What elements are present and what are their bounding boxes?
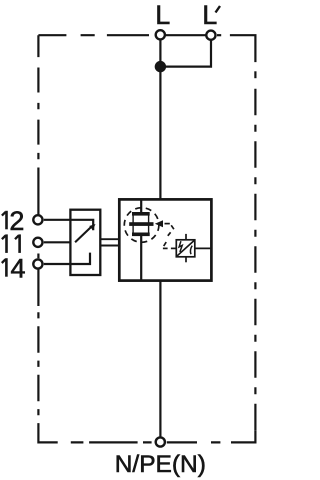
trigger unit box bottom lead <box>185 257 187 263</box>
changeover contact box K1 <box>70 210 100 275</box>
terminal 11 <box>33 238 42 247</box>
wire: L terminal down to junction <box>159 40 161 199</box>
trigger dashed connection dash 1 <box>165 223 170 225</box>
trigger unit lightning bolt <box>179 241 182 252</box>
device outline dash-dot border: dot above terminal 14 <box>37 254 39 259</box>
device outline dash-dot border: right side <box>254 89 256 431</box>
trigger dashed connection dash 5 <box>163 247 168 249</box>
terminal N/PE(N) <box>156 437 165 446</box>
label 14 digit 1 <box>2 258 8 277</box>
wire: L to L' top link <box>160 34 211 36</box>
svg-text:L: L <box>155 0 170 30</box>
junction node: L/L' common point <box>155 61 166 72</box>
device outline dash-dot border: top-right corner dash <box>230 35 256 62</box>
spark gap bottom electrode <box>132 233 150 237</box>
mechanical linkage lower line <box>101 245 119 247</box>
device outline dash-dot border: bottom side right of N/PE <box>167 441 221 443</box>
label 11 digit 1 second <box>15 234 21 253</box>
svg-text:2: 2 <box>9 206 24 236</box>
wire: below terminal 14 <box>37 269 39 306</box>
trigger unit box right lead <box>195 247 212 249</box>
svg-text:4: 4 <box>11 253 26 283</box>
svg-text:L: L <box>202 0 217 30</box>
spark gap dashed circle <box>124 208 159 243</box>
trigger unit box left lead <box>171 247 176 249</box>
trigger arrow into spark gap <box>155 220 163 227</box>
trigger dashed connection dash 3 <box>168 232 171 236</box>
trigger unit box top lead <box>185 234 187 240</box>
terminal 14 <box>33 259 42 268</box>
device outline dash-dot border: top side <box>38 34 149 36</box>
arrester enclosure box U1 <box>119 199 211 280</box>
device outline dash-dot border: stub right of L' <box>217 34 221 36</box>
contact 12 line inside box with down stub <box>70 220 93 231</box>
label 12 digit 1 <box>2 211 8 230</box>
wire: terminal 12 to contact box <box>44 219 71 221</box>
trigger dashed connection dash 4 <box>164 242 167 246</box>
spark gap bottom lead <box>140 236 142 281</box>
terminal L' <box>206 31 215 40</box>
spark gap housing left wall <box>132 214 134 234</box>
trigger unit box <box>176 240 195 257</box>
terminal 12 <box>33 215 42 224</box>
trigger dashed connection dash 2 <box>171 225 174 229</box>
wire: terminal 14 to contact box <box>44 263 71 265</box>
device outline dash-dot border: bottom-left corner dash <box>38 423 57 442</box>
wire: L' terminal drop <box>160 40 211 67</box>
contact 14 line inside box <box>70 253 90 264</box>
switch lever from contact 11 <box>75 227 91 242</box>
wire: terminal 11 to contact box <box>44 241 71 243</box>
device outline dash-dot border: bottom side left of N/PE <box>71 441 152 443</box>
device outline dash-dot border: left side lower dashes <box>37 312 39 415</box>
terminal L <box>156 30 165 39</box>
label 11 digit 1 first <box>2 234 8 253</box>
wire: left border solid lead into terminal 12 <box>37 168 39 216</box>
spark gap top lead <box>140 199 142 212</box>
spark gap housing right wall <box>148 214 150 234</box>
trigger unit surge wave mark <box>190 246 192 255</box>
spark gap middle electrode bar <box>129 222 153 226</box>
switch lever arrowhead <box>89 224 95 230</box>
device outline dash-dot border: right side dot <box>254 71 256 78</box>
device outline dash-dot border: bottom-right corner dash <box>231 430 255 442</box>
device outline dash-dot border: left side upper <box>37 35 39 159</box>
mechanical linkage upper line <box>101 238 119 240</box>
trigger unit diagonal <box>177 241 194 256</box>
label L prime accent <box>216 6 221 13</box>
wire: main line from arrester box to N/PE terminal <box>159 281 161 437</box>
spark gap top electrode <box>132 212 150 216</box>
svg-text:N/PE(N): N/PE(N) <box>115 451 206 478</box>
